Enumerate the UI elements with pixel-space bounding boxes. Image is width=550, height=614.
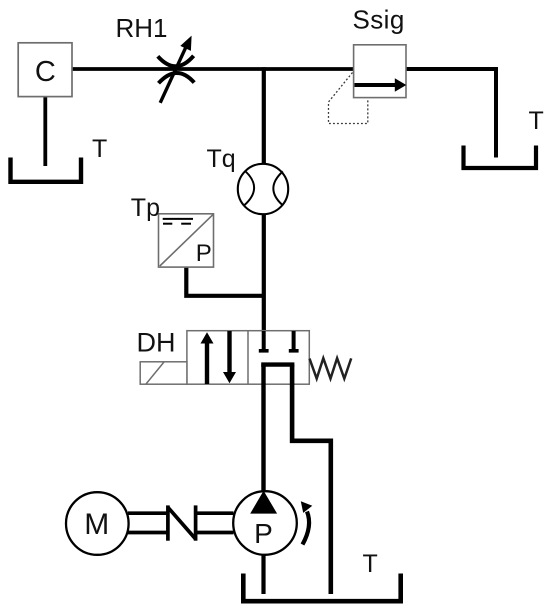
- svg-text:T: T: [92, 135, 107, 163]
- svg-text:Ssig: Ssig: [353, 4, 405, 34]
- svg-text:C: C: [35, 56, 56, 88]
- svg-text:P: P: [254, 518, 273, 549]
- svg-text:Tq: Tq: [207, 145, 236, 173]
- svg-text:Tp: Tp: [131, 194, 160, 222]
- svg-text:P: P: [196, 240, 212, 267]
- svg-text:M: M: [84, 508, 109, 541]
- svg-text:T: T: [529, 107, 544, 135]
- svg-text:T: T: [363, 550, 378, 578]
- svg-text:RH1: RH1: [116, 13, 168, 43]
- svg-text:DH: DH: [137, 328, 176, 358]
